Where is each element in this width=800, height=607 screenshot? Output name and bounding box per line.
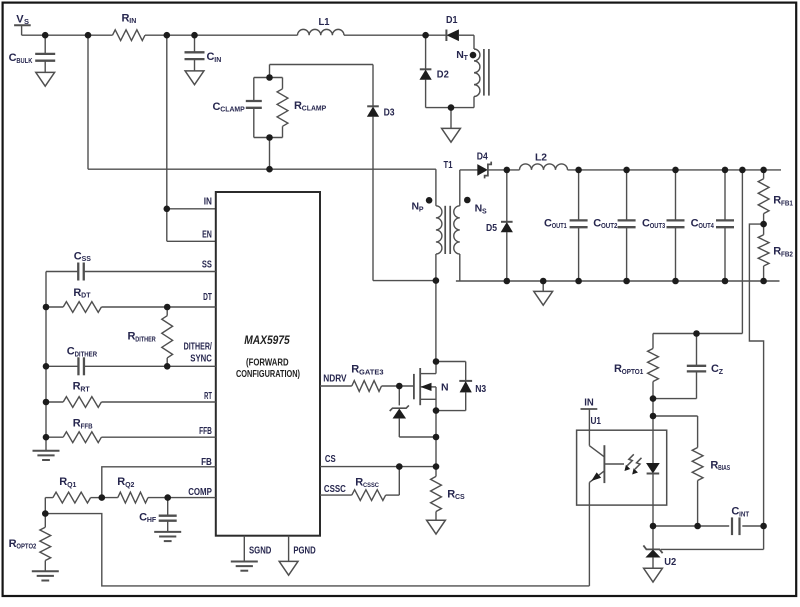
svg-text:CS: CS <box>455 494 465 501</box>
svg-text:INT: INT <box>739 511 750 518</box>
svg-text:S: S <box>482 208 487 215</box>
svg-text:DITHER: DITHER <box>75 351 98 358</box>
svg-text:IN: IN <box>129 18 136 25</box>
svg-text:CSSC: CSSC <box>363 482 379 489</box>
svg-text:RT: RT <box>80 386 90 393</box>
svg-text:DT: DT <box>81 293 91 300</box>
svg-text:CONFIGURATION): CONFIGURATION) <box>236 369 300 380</box>
svg-text:D5: D5 <box>486 222 497 234</box>
svg-text:OUT4: OUT4 <box>698 223 714 230</box>
svg-text:OUT3: OUT3 <box>650 223 666 230</box>
svg-text:HF: HF <box>147 517 157 524</box>
svg-text:U1: U1 <box>591 415 602 427</box>
svg-text:D2: D2 <box>437 69 449 81</box>
svg-text:OUT1: OUT1 <box>552 223 567 230</box>
svg-text:U2: U2 <box>664 556 676 568</box>
svg-text:L1: L1 <box>319 16 330 28</box>
svg-text:DT: DT <box>203 291 212 303</box>
svg-text:CS: CS <box>325 453 336 465</box>
svg-text:T1: T1 <box>444 159 453 171</box>
svg-text:MAX5975: MAX5975 <box>244 335 290 347</box>
svg-text:OPTO1: OPTO1 <box>622 369 644 376</box>
svg-text:CLAMP: CLAMP <box>302 106 327 113</box>
svg-text:Z: Z <box>719 369 724 376</box>
svg-text:Q2: Q2 <box>125 482 134 489</box>
svg-text:Q1: Q1 <box>67 482 76 489</box>
svg-text:SYNC: SYNC <box>190 352 212 364</box>
svg-text:S: S <box>24 17 29 26</box>
svg-text:(FORWARD: (FORWARD <box>246 357 289 368</box>
svg-text:IN: IN <box>204 196 212 208</box>
svg-text:BIAS: BIAS <box>718 465 730 472</box>
svg-text:DITHER: DITHER <box>135 337 156 344</box>
svg-text:FB2: FB2 <box>781 252 793 259</box>
svg-text:CLAMP: CLAMP <box>220 107 245 114</box>
svg-text:P: P <box>419 206 424 213</box>
svg-text:N: N <box>441 382 449 394</box>
svg-text:FFB: FFB <box>199 425 212 437</box>
svg-text:FFB: FFB <box>81 424 93 431</box>
svg-text:EN: EN <box>202 229 212 241</box>
svg-text:GATE3: GATE3 <box>359 369 384 376</box>
svg-text:FB: FB <box>201 456 212 468</box>
svg-text:CSSC: CSSC <box>324 483 346 495</box>
svg-text:SGND: SGND <box>249 544 272 556</box>
svg-text:IN: IN <box>214 57 221 64</box>
svg-text:L2: L2 <box>535 151 547 163</box>
svg-text:OUT2: OUT2 <box>601 223 618 230</box>
svg-text:SS: SS <box>202 258 212 270</box>
svg-text:D4: D4 <box>477 150 488 162</box>
svg-text:BULK: BULK <box>16 58 32 65</box>
svg-text:PGND: PGND <box>293 544 316 556</box>
svg-text:NDRV: NDRV <box>323 373 346 385</box>
svg-text:N3: N3 <box>475 383 486 395</box>
svg-text:SS: SS <box>82 256 92 263</box>
svg-text:T: T <box>464 55 469 62</box>
svg-text:D3: D3 <box>384 107 395 119</box>
svg-text:FB1: FB1 <box>781 200 793 207</box>
svg-text:COMP: COMP <box>188 486 212 498</box>
svg-text:RT: RT <box>204 390 212 402</box>
svg-text:OPTO2: OPTO2 <box>16 544 36 551</box>
svg-text:D1: D1 <box>446 14 458 26</box>
svg-text:DITHER/: DITHER/ <box>184 341 212 353</box>
svg-text:IN: IN <box>584 397 594 409</box>
